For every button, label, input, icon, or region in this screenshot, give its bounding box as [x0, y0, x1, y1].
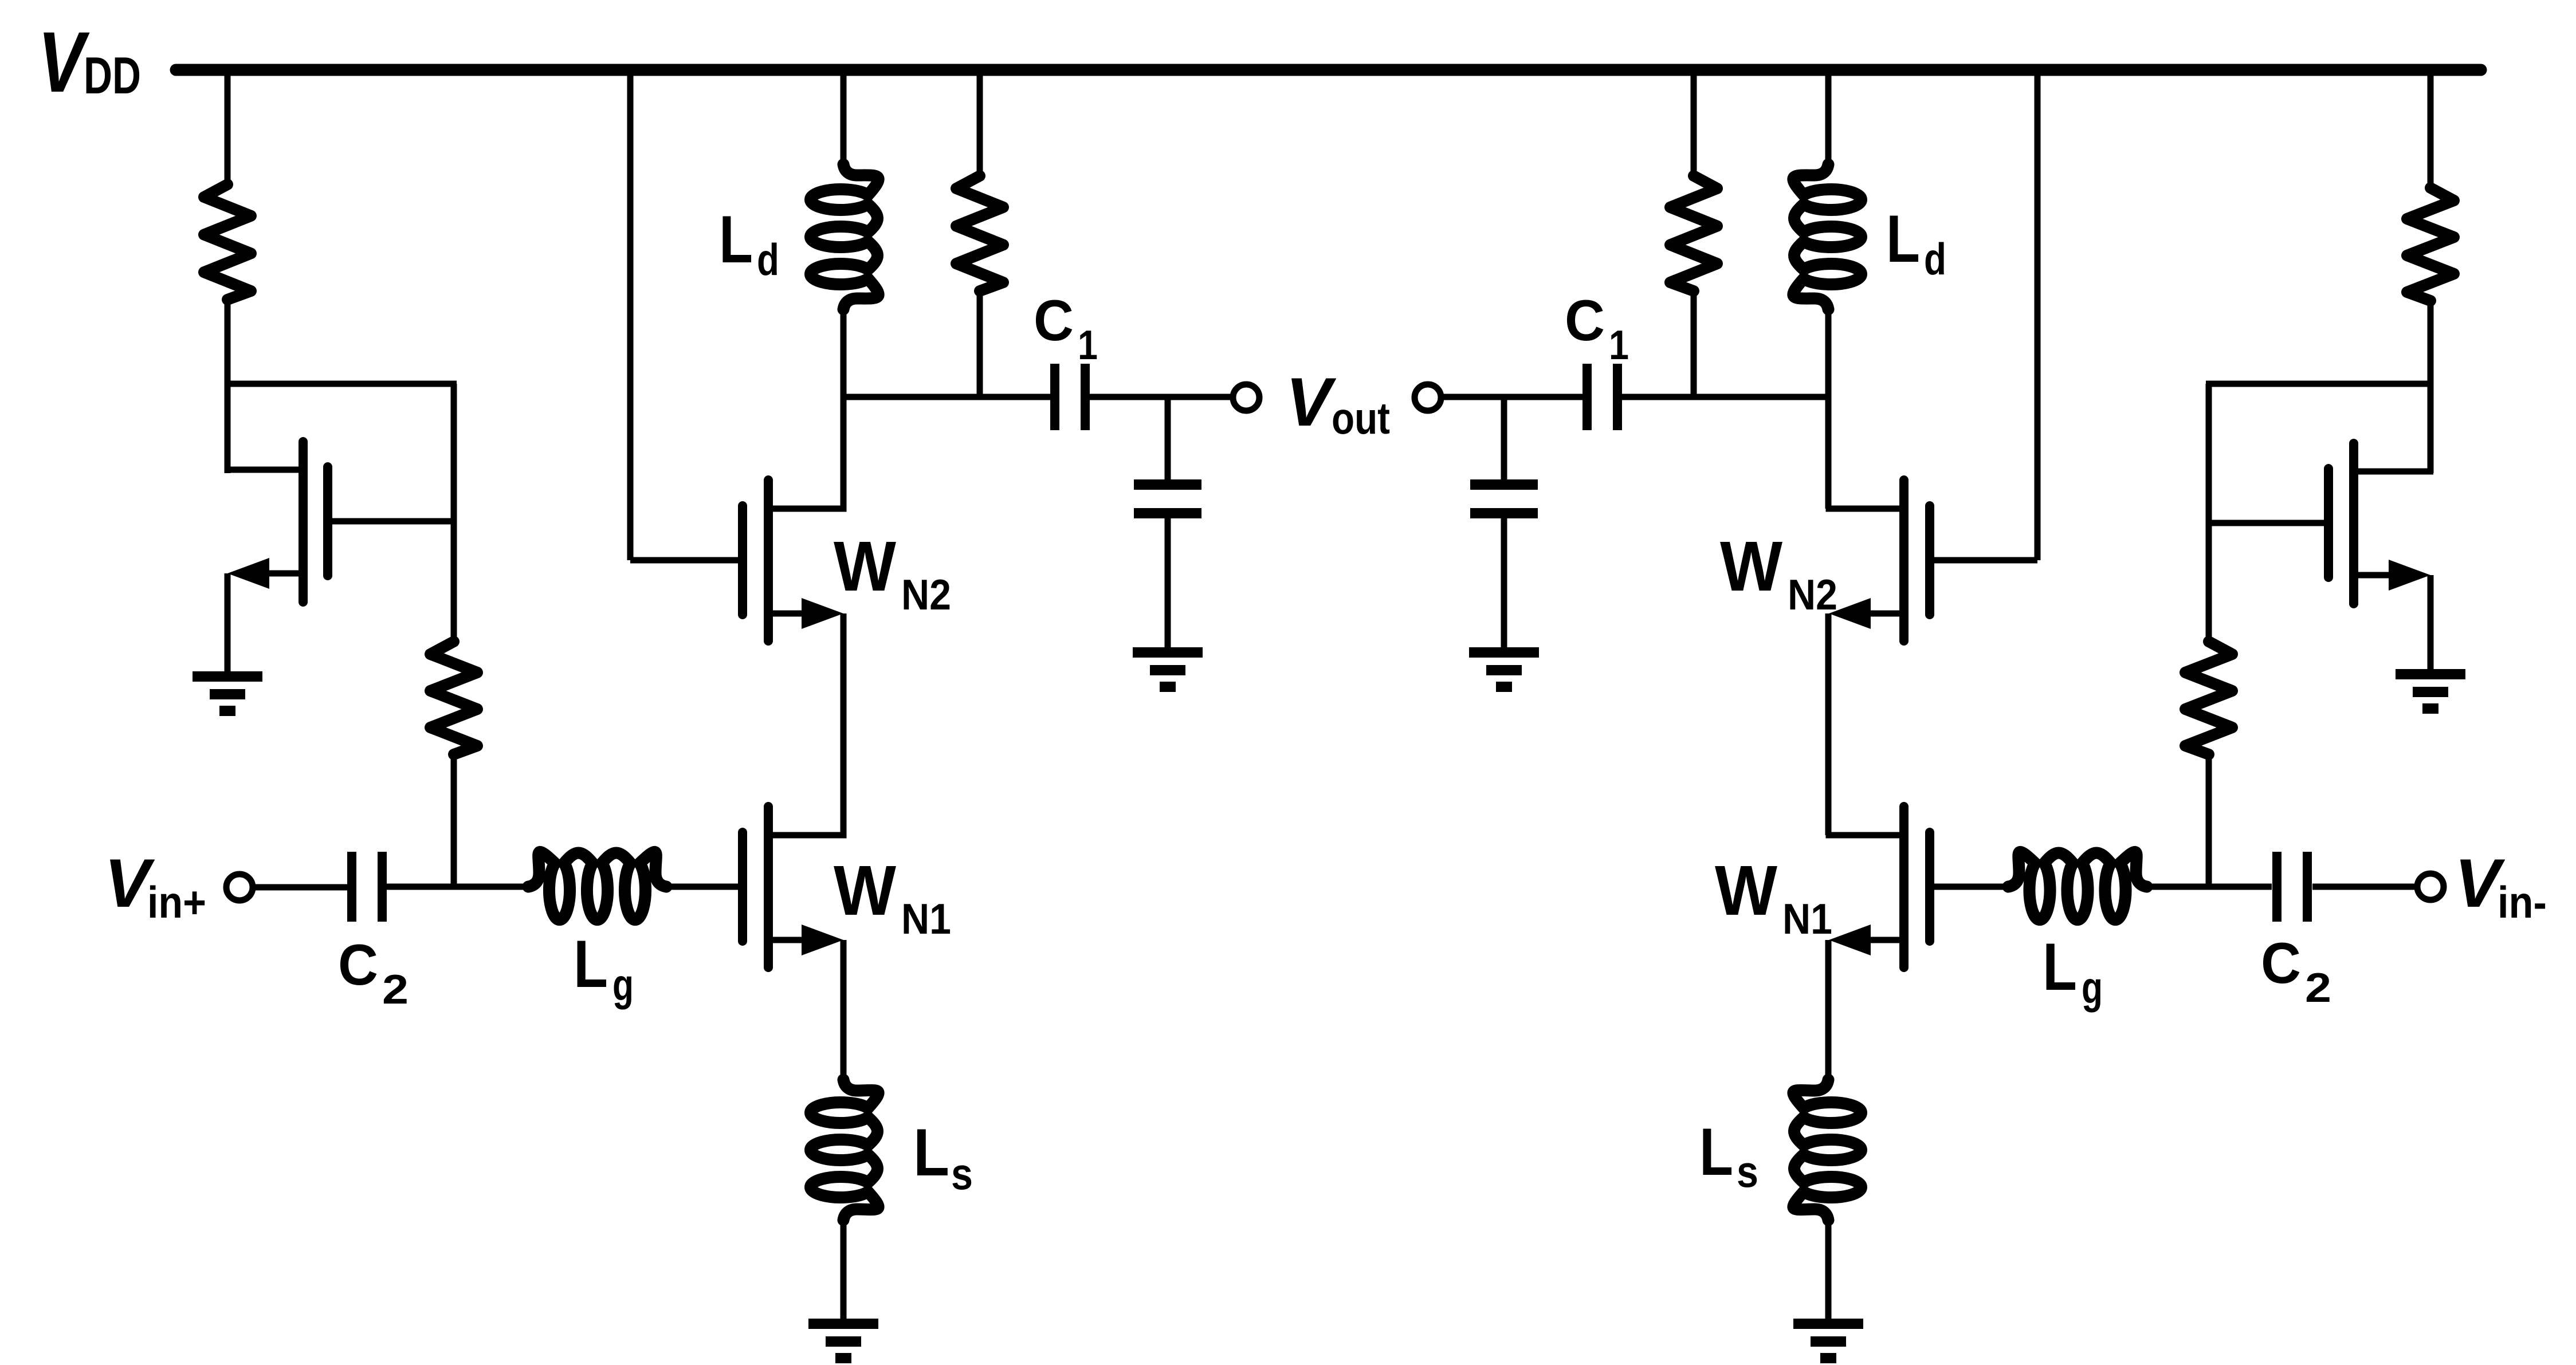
resistor Rd right	[1670, 176, 1717, 291]
svg-text:1: 1	[1609, 322, 1629, 368]
label Ld right	[1886, 201, 1946, 284]
wire	[841, 613, 847, 835]
label C2 left	[338, 933, 409, 1013]
wire	[225, 70, 231, 186]
label Vin-	[2455, 845, 2547, 927]
label Lg right	[2043, 929, 2103, 1013]
node bias right top wire	[2206, 381, 2433, 387]
transistor WN1 left	[743, 807, 847, 967]
inductor Lg left	[528, 852, 666, 919]
wire	[1825, 613, 1832, 835]
wire	[977, 70, 983, 177]
svg-text:W: W	[834, 528, 896, 606]
wire WN2 gate left	[630, 557, 738, 564]
ground	[2396, 669, 2465, 714]
svg-text:d: d	[1924, 234, 1946, 284]
wire	[2035, 70, 2041, 560]
label WN2 right	[1720, 528, 1837, 619]
wire WN2 gate right	[1934, 557, 2037, 564]
terminal Vout right	[1415, 384, 1441, 411]
svg-text:L: L	[719, 202, 753, 277]
label WN1 left	[834, 852, 951, 943]
label C1 right	[1565, 289, 1629, 368]
svg-text:L: L	[574, 926, 608, 1001]
wire	[451, 384, 457, 643]
wire output row right	[1440, 394, 1582, 400]
svg-text:N1: N1	[901, 895, 951, 943]
label Ld left	[719, 202, 779, 285]
ground	[1133, 647, 1203, 692]
wire	[841, 940, 847, 1081]
svg-text:s: s	[1737, 1146, 1758, 1197]
svg-text:V: V	[38, 14, 90, 110]
wire	[1934, 884, 2008, 890]
svg-text:L: L	[2043, 929, 2077, 1004]
wire	[627, 70, 634, 560]
wire	[2428, 575, 2434, 670]
transistor Mb1 (diode-connected, left)	[227, 442, 454, 602]
svg-text:C: C	[2261, 931, 2301, 996]
wire	[1090, 394, 1234, 400]
ground	[1469, 647, 1539, 692]
svg-text:L: L	[1699, 1114, 1733, 1189]
node bias left top wire	[225, 381, 457, 387]
label WN2 left	[834, 528, 951, 619]
svg-text:W: W	[834, 852, 896, 930]
wire	[1825, 1219, 1832, 1320]
wire	[1825, 308, 1832, 509]
svg-text:C: C	[1034, 289, 1074, 353]
resistor R2 left	[430, 642, 477, 754]
transistor WN2 right	[1826, 480, 1930, 641]
svg-text:in+: in+	[147, 877, 206, 927]
svg-text:N2: N2	[901, 571, 951, 619]
inductor Ls right	[1793, 1080, 1862, 1220]
ground	[808, 1319, 878, 1363]
inductor Ls left	[811, 1080, 879, 1220]
svg-text:2: 2	[2305, 965, 2331, 1011]
ground	[193, 671, 262, 716]
label VDD	[38, 14, 141, 110]
label Ls left	[913, 1115, 973, 1199]
wire	[1825, 940, 1832, 1081]
svg-text:L: L	[1886, 201, 1920, 276]
capacitor C1 left	[1050, 364, 1090, 430]
capacitor Cout right (shunt)	[1470, 397, 1538, 648]
inductor Lg right	[2008, 852, 2147, 919]
svg-text:out: out	[1332, 393, 1390, 443]
wire	[666, 884, 738, 890]
wire	[1691, 290, 1697, 397]
inductor Ld right	[1793, 164, 1862, 309]
capacitor C2 right	[2272, 852, 2312, 922]
resistor Rd left	[956, 176, 1003, 291]
svg-text:s: s	[951, 1148, 973, 1199]
svg-text:d: d	[757, 234, 779, 285]
transistor Mb2 (diode-connected, right)	[2209, 443, 2433, 604]
label Vout	[1286, 364, 1390, 443]
transistor WN1 right	[1826, 807, 1930, 967]
label WN1 right	[1715, 852, 1832, 943]
wire	[451, 753, 457, 887]
wire	[1691, 70, 1697, 177]
wire	[225, 298, 231, 473]
wire	[2206, 753, 2212, 887]
inductor Ld left	[811, 164, 879, 309]
svg-text:1: 1	[1078, 322, 1098, 368]
svg-text:C: C	[1565, 289, 1605, 353]
svg-text:V: V	[1286, 364, 1337, 440]
resistor Rbias left	[204, 184, 251, 300]
svg-text:W: W	[1715, 852, 1777, 930]
wire	[977, 290, 983, 397]
label Vin+	[104, 845, 206, 927]
wire	[387, 884, 528, 890]
svg-text:DD: DD	[84, 47, 141, 105]
wire	[225, 573, 231, 672]
svg-text:g: g	[612, 959, 634, 1010]
label C1 left	[1034, 289, 1098, 368]
wire	[2428, 300, 2434, 473]
capacitor C1 right	[1582, 364, 1622, 430]
svg-text:g: g	[2082, 962, 2103, 1013]
label Lg left	[574, 926, 634, 1010]
wire output row left	[843, 394, 1050, 400]
label C2 right	[2261, 931, 2331, 1011]
transistor WN2 left	[743, 480, 847, 641]
svg-text:N2: N2	[1788, 571, 1837, 619]
svg-text:2: 2	[382, 967, 409, 1013]
wire	[841, 308, 847, 509]
power rail VDD	[176, 64, 2481, 76]
ground	[1793, 1319, 1863, 1363]
wire	[1622, 394, 1828, 400]
wire	[2147, 884, 2272, 890]
wire	[2428, 70, 2434, 189]
capacitor C2 left	[347, 852, 387, 922]
wire	[841, 70, 847, 166]
terminal Vin-	[2417, 874, 2444, 900]
wire	[2206, 384, 2212, 643]
wire	[2312, 884, 2419, 890]
capacitor Cout left (shunt)	[1134, 397, 1201, 648]
svg-text:C: C	[338, 933, 378, 997]
wire	[252, 884, 347, 891]
svg-text:in-: in-	[2498, 877, 2547, 927]
terminal Vin+	[226, 874, 253, 900]
resistor R2 right	[2185, 642, 2232, 754]
wire	[1825, 70, 1832, 166]
label Ls right	[1699, 1114, 1758, 1197]
svg-text:W: W	[1720, 528, 1782, 606]
svg-text:L: L	[913, 1115, 949, 1190]
terminal Vout left	[1233, 384, 1259, 411]
wire	[841, 1219, 847, 1320]
resistor Rbias right	[2407, 188, 2454, 301]
svg-text:N1: N1	[1782, 895, 1832, 943]
